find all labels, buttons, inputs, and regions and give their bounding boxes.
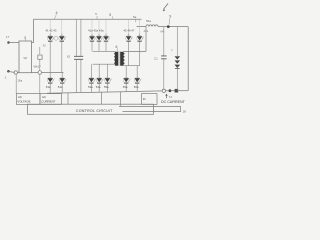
dc link capacitor branch	[67, 19, 83, 93]
svg-text:53a: 53a	[88, 85, 93, 89]
wire	[171, 90, 174, 92]
thyristor Q42 (top row)	[59, 19, 66, 72]
wire: midline to inverter leg A	[42, 72, 64, 74]
gate lead from control circuit (far right)	[120, 92, 122, 107]
thyristor Q42a (top row)	[96, 19, 103, 51]
svg-text:53a: 53a	[46, 85, 51, 89]
diode D46 (top row)	[137, 19, 144, 65]
bottom bus	[47, 91, 162, 93]
svg-text:55a: 55a	[104, 85, 109, 89]
label 3	[24, 36, 26, 41]
wire: bottom input to box corner	[18, 72, 20, 74]
gate lead from control circuit (right)	[101, 92, 103, 104]
svg-text:56a: 56a	[134, 85, 139, 89]
thyristor Q54a (bottom row)	[96, 64, 104, 92]
wire: box to junction node circle	[32, 72, 38, 74]
input block 3	[19, 41, 32, 73]
svg-text:18: 18	[183, 110, 187, 114]
AC current detector box	[40, 94, 62, 105]
label 9 with leader	[169, 14, 171, 24]
primary bottom wire	[93, 63, 116, 65]
figure pointer arrow	[163, 3, 168, 11]
filter capacitor C1 branch	[154, 27, 167, 90]
svg-text:54a: 54a	[96, 85, 101, 89]
svg-text:16a: 16a	[18, 79, 23, 83]
svg-text:55a: 55a	[123, 85, 128, 89]
thyristor Q53a (bottom row)	[88, 64, 96, 92]
svg-text:74: 74	[169, 95, 173, 99]
svg-text:45 46 47: 45 46 47	[124, 28, 135, 32]
gate pulse bus box	[119, 106, 181, 111]
diode D55 (bottom row)	[123, 66, 131, 92]
label 6	[116, 45, 118, 52]
gate lead from control circuit (left)	[67, 93, 69, 105]
series diode stack branch	[171, 27, 180, 91]
svg-text:CURRENT: CURRENT	[41, 99, 55, 103]
svg-text:Wb17: Wb17	[34, 65, 42, 69]
wire to right edge corner	[178, 90, 188, 92]
control circuit box	[28, 104, 154, 114]
primary top wire	[93, 50, 116, 52]
terminal 1 (top-left input)	[6, 35, 19, 44]
wire: sense line down to AC current detector	[39, 74, 41, 93]
svg-text:56a: 56a	[146, 19, 151, 23]
thyristor Q55a (bottom row)	[104, 64, 112, 92]
wire: voltage sense down to AC voltage detector	[16, 74, 22, 93]
feedback detector box (right, above control box)	[142, 94, 158, 105]
diode D45 (top row)	[126, 19, 133, 65]
svg-text:17: 17	[6, 35, 10, 39]
svg-text:AC: AC	[18, 95, 22, 99]
label 5	[109, 13, 113, 19]
transformer 6	[114, 51, 124, 66]
label 4	[54, 11, 57, 19]
thyristor Q41a (top row)	[89, 19, 96, 51]
thyristor Q54 (bottom row)	[58, 73, 67, 94]
secondary top wire	[123, 27, 146, 51]
svg-text:5a: 5a	[133, 15, 137, 19]
svg-text:9: 9	[169, 14, 171, 18]
label 5 tick under bus	[95, 12, 97, 19]
terminal 2 (bottom-left input)	[5, 70, 18, 79]
wire	[166, 90, 169, 92]
svg-text:4: 4	[56, 11, 58, 15]
svg-text:DC CURRENT: DC CURRENT	[161, 100, 186, 104]
svg-text:5: 5	[109, 13, 111, 17]
svg-text:CONTROL CIRCUIT: CONTROL CIRCUIT	[76, 109, 113, 113]
AC voltage detector box	[17, 94, 41, 105]
svg-text:AC: AC	[42, 95, 46, 99]
shunt square	[175, 89, 179, 93]
output line with smoothing choke 56	[137, 19, 189, 26]
diode D56 (bottom row)	[134, 66, 142, 92]
svg-text:41 42 43: 41 42 43	[46, 28, 57, 32]
svg-text:Ifb: Ifb	[143, 97, 147, 101]
dc current sense arrow	[165, 94, 172, 100]
node circle junction	[38, 71, 42, 75]
node circle on bottom bus	[162, 89, 165, 92]
wire: left vertical from bus to input box	[32, 19, 34, 42]
junction dot	[169, 89, 172, 92]
svg-text:C1: C1	[154, 57, 158, 61]
current transformer square on sense line	[34, 47, 43, 71]
label 5a with tick	[133, 15, 137, 22]
svg-text:41a 42a 43a: 41a 42a 43a	[88, 28, 104, 32]
thyristor Q41 (top row)	[47, 19, 54, 72]
thyristor Q43a (top row)	[103, 19, 110, 51]
svg-text:Wr: Wr	[24, 56, 28, 60]
svg-text:62: 62	[67, 55, 71, 59]
secondary bottom wire	[123, 65, 139, 67]
junction dot on output line	[167, 25, 170, 28]
svg-text:54a: 54a	[58, 85, 63, 89]
right edge vertical wire	[187, 27, 189, 91]
top bus (node 4)	[34, 18, 142, 20]
gate circle	[54, 36, 58, 40]
svg-text:VOLTAGE: VOLTAGE	[17, 99, 30, 103]
thyristor Q53 (bottom row)	[46, 73, 55, 94]
